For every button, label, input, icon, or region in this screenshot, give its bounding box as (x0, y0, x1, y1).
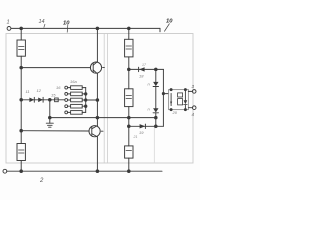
node feedback row (155, 125, 158, 128)
transistor Q2 (89, 126, 100, 137)
node top-left (20, 27, 23, 30)
ground (46, 122, 53, 124)
node diode chain shunt (155, 116, 158, 119)
housing box 10 (light outline) (6, 34, 193, 164)
resistor R2 (17, 144, 25, 161)
node bottom-left (20, 170, 23, 173)
switch bank S1 row 2 (65, 92, 86, 96)
wire base Q2 (21, 130, 89, 132)
wire bottom bus (7, 170, 162, 172)
partition line output section (153, 128, 155, 164)
svg-text:14: 14 (39, 19, 45, 25)
diode D2 (38, 98, 43, 103)
node shunt emitter rail (96, 116, 99, 119)
node top right rail (128, 27, 131, 30)
svg-text:1: 1 (7, 20, 10, 26)
wire drive row (129, 68, 164, 70)
wire emitter Q1 (96, 74, 98, 126)
node drive row (155, 68, 158, 71)
node right rail shunt (128, 116, 131, 119)
terminal T1 (7, 27, 11, 31)
node bus row2 (85, 93, 87, 95)
svg-text:16a: 16a (70, 79, 77, 84)
wire top bus end tick (159, 28, 161, 31)
node diode row left (20, 99, 23, 102)
module U1 (169, 90, 189, 110)
wire right rail mid1 (128, 57, 130, 89)
svg-text:11: 11 (26, 89, 30, 94)
wire right rail mid2 (128, 107, 130, 146)
wire shunt row (50, 117, 156, 119)
leader 14 (44, 24, 45, 28)
diode D6 (140, 124, 146, 128)
module U1 left element (170, 93, 172, 105)
node emitter Q2 bottom (96, 170, 99, 173)
svg-text:16: 16 (56, 85, 61, 90)
module U1 edge nodes (170, 89, 172, 91)
wire right rail lower (128, 158, 130, 171)
wire diode row (21, 99, 65, 101)
svg-text:2: 2 (39, 178, 44, 184)
svg-text:18: 18 (139, 74, 144, 79)
resistor R5 (125, 146, 133, 158)
wire top bus (11, 27, 160, 29)
node bus row4 (85, 105, 87, 107)
module U1 centre rects (178, 93, 183, 97)
switch bank S1 row 5 (65, 111, 86, 115)
node base Q2 (20, 129, 23, 132)
wire to ground (49, 100, 51, 123)
partition line left block (103, 34, 105, 164)
module U1 right diode (184, 90, 186, 101)
node bus row3 (85, 99, 87, 101)
connector plug (55, 98, 59, 102)
node collector Q1 top (96, 27, 99, 30)
svg-text:10: 10 (63, 21, 70, 27)
wire diode chain middle (155, 87, 157, 109)
wire collector Q1 (96, 28, 98, 61)
wire diode chain upper (155, 69, 157, 82)
terminal T2 (3, 169, 7, 173)
wire bus to emitter rail (86, 99, 98, 101)
terminal T3 (192, 90, 196, 94)
diode D3 (138, 67, 140, 71)
node tap (162, 93, 164, 95)
wire right return (162, 69, 164, 126)
wire right rail upper (128, 28, 130, 39)
node shunt branch (49, 116, 52, 119)
wire feedback row (129, 125, 164, 127)
wire to terminal T3 (188, 90, 192, 92)
resistor R3 (125, 39, 133, 57)
node right rail feedback (128, 125, 131, 128)
terminal T4 (192, 106, 196, 110)
wire left rail middle (20, 56, 22, 143)
svg-text:20: 20 (172, 110, 178, 115)
switch bank S1 row 1 (65, 86, 86, 90)
diode D4 (153, 82, 158, 86)
wire left rail lower (20, 161, 22, 172)
svg-text:21: 21 (133, 135, 138, 139)
node right rail branch (128, 68, 131, 71)
wire tap to module (163, 93, 168, 95)
resistor R4 (125, 89, 133, 107)
wire bus S1 (85, 88, 87, 113)
leader 10 right (164, 24, 169, 32)
partition line right block (107, 34, 109, 164)
diode D1 (29, 98, 34, 103)
wire emitter Q2 (96, 137, 98, 171)
resistor R1 (17, 40, 25, 56)
transistor Q1 (90, 62, 101, 73)
svg-text:19: 19 (139, 130, 144, 135)
node emitter rail (96, 99, 99, 102)
wire diode chain lower (155, 113, 157, 127)
node right rail bottom (128, 170, 131, 173)
switch bank S1 row 4 (65, 104, 86, 108)
wire to terminal T4 (188, 107, 192, 109)
node ground branch (49, 99, 52, 102)
node base Q1 (20, 66, 23, 69)
leader 10 left (66, 25, 69, 33)
diode D5 (153, 108, 158, 112)
switch bank S1 row 3 (65, 98, 86, 102)
wire left rail upper (20, 28, 22, 40)
svg-text:12: 12 (37, 88, 42, 93)
wire base Q1 (21, 67, 90, 69)
svg-text:15: 15 (51, 93, 56, 98)
